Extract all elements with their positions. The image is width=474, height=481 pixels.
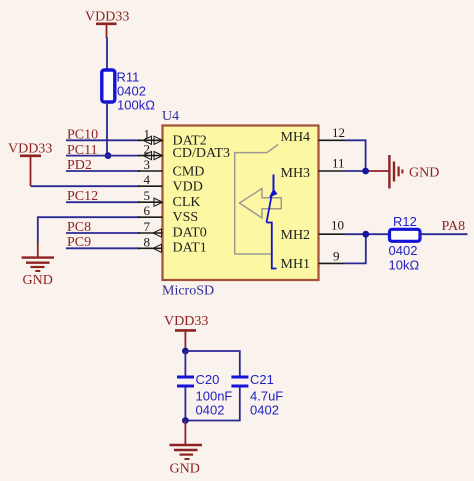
svg-text:MH1: MH1 (281, 257, 311, 272)
wire pin 11 to junction (345, 170, 370, 172)
pin 6 VSS (138, 203, 198, 225)
wire top rail to C21 (185, 351, 239, 376)
svg-text:10: 10 (331, 218, 344, 233)
wire pin 10 to R12 (345, 233, 391, 235)
svg-text:CLK: CLK (173, 195, 201, 210)
card detect lever (blue) (267, 175, 278, 269)
junction R11/PC11 (105, 152, 112, 159)
junction bottom rail (182, 417, 189, 424)
pin 8 DAT1 (138, 234, 207, 255)
svg-text:CMD: CMD (173, 165, 205, 180)
pin 10 MH2 (281, 218, 345, 244)
R11 designator and value labels (117, 70, 156, 113)
pin 2 CD/DAT3 (138, 142, 230, 161)
svg-text:7: 7 (144, 219, 151, 234)
svg-text:VDD33: VDD33 (85, 10, 129, 25)
C21 designator and value labels (250, 372, 283, 418)
svg-text:MicroSD: MicroSD (162, 284, 214, 299)
svg-text:0402: 0402 (117, 84, 146, 99)
ground GND (right, rotated) (369, 155, 439, 189)
svg-text:0402: 0402 (196, 403, 225, 418)
resistor R12 (390, 229, 421, 241)
svg-text:C21: C21 (250, 372, 274, 387)
pin 7 DAT0 (138, 219, 207, 241)
card detect arrow (gray) (240, 189, 282, 219)
svg-text:0402: 0402 (250, 403, 279, 418)
C20 designator and value labels (196, 372, 233, 418)
svg-text:10kΩ: 10kΩ (389, 258, 420, 273)
wire pin 9 up to junction (345, 234, 366, 263)
svg-text:GND: GND (409, 166, 439, 181)
svg-text:12: 12 (332, 125, 345, 140)
svg-text:6: 6 (144, 203, 151, 218)
wire PC10 to pin 1 (66, 139, 140, 141)
svg-text:11: 11 (332, 156, 345, 171)
svg-text:4.7uF: 4.7uF (250, 389, 283, 404)
wire PD2 to pin 3 (66, 170, 140, 172)
svg-text:VDD33: VDD33 (8, 142, 52, 157)
svg-text:3: 3 (144, 157, 151, 172)
power flag VDD33 (left) (8, 142, 52, 187)
svg-text:9: 9 (333, 249, 340, 264)
svg-text:VDD: VDD (173, 180, 203, 195)
ground GND (bottom) (170, 421, 203, 477)
svg-text:5: 5 (144, 188, 151, 203)
svg-text:DAT0: DAT0 (173, 226, 207, 241)
junction MH3/MH4 (362, 168, 369, 175)
wire C21 bottom to junction (185, 388, 239, 421)
svg-text:MH4: MH4 (281, 130, 311, 145)
pin 12 MH4 (281, 125, 346, 145)
svg-text:GND: GND (23, 273, 53, 288)
R12 designator and value labels (389, 214, 420, 273)
svg-text:R12: R12 (393, 214, 417, 229)
capacitor C21 (231, 377, 248, 386)
svg-text:CD/DAT3: CD/DAT3 (173, 146, 231, 161)
junction MH2/MH1 (362, 231, 369, 238)
svg-text:DAT1: DAT1 (173, 241, 207, 256)
svg-text:0402: 0402 (389, 243, 418, 258)
svg-text:U4: U4 (162, 109, 179, 124)
pin 5 CLK (138, 188, 201, 210)
pin 4 VDD (138, 172, 203, 194)
svg-text:VSS: VSS (173, 210, 199, 225)
junction VDD33/C20/C21 top (182, 348, 189, 355)
wire pin 12 to junction (345, 140, 366, 171)
ground GND (left) (22, 242, 55, 288)
wire C20 bottom (184, 388, 186, 421)
card detect frame (gray) (235, 145, 278, 255)
svg-text:MH3: MH3 (281, 166, 311, 181)
svg-text:100kΩ: 100kΩ (117, 98, 155, 113)
svg-text:4: 4 (144, 172, 151, 187)
wire PC11 to pin 2 (66, 155, 140, 157)
wire PC9 to pin 8 (66, 247, 140, 249)
wire C20 top (184, 351, 186, 376)
capacitor C20 (177, 377, 194, 386)
wire R11 bottom to junction (106, 102, 108, 156)
svg-text:8: 8 (144, 234, 151, 249)
wire VDD33 to R11 top (106, 37, 108, 71)
wire VSS to left ground (38, 217, 140, 243)
wire PC8 to pin 7 (66, 232, 140, 234)
power flag VDD33 (top) (85, 10, 129, 39)
pin 11 MH3 (281, 156, 345, 182)
pin 9 MH1 (281, 249, 345, 273)
svg-text:100nF: 100nF (196, 389, 233, 404)
svg-text:C20: C20 (196, 372, 220, 387)
wire VDD33 to pin 4 VDD (31, 185, 141, 187)
svg-text:R11: R11 (117, 70, 140, 85)
svg-text:GND: GND (170, 462, 200, 477)
resistor R11 (102, 70, 115, 102)
wire PC12 to pin 5 (66, 201, 140, 203)
svg-text:PA8: PA8 (442, 219, 466, 234)
pin 3 CMD (138, 157, 204, 180)
svg-text:MH2: MH2 (281, 228, 311, 243)
pin 1 DAT2 (138, 126, 207, 148)
IC U4 body (163, 126, 319, 281)
power flag VDD33 (bottom) (164, 314, 208, 351)
svg-text:VDD33: VDD33 (164, 314, 208, 329)
wire R12 to PA8 (420, 233, 468, 235)
